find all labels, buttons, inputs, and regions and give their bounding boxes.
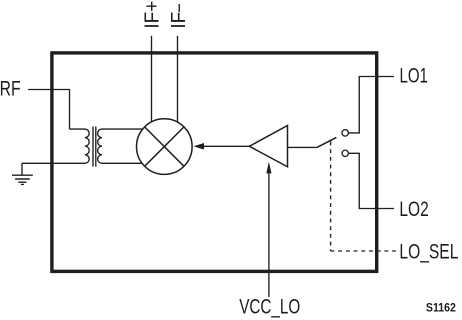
switch contact 1 [342, 130, 348, 136]
switch arm [317, 137, 337, 147]
LO1 lead [348, 77, 394, 133]
LO_SEL dashed control line [330, 142, 332, 252]
svg-text:LO1: LO1 [400, 65, 428, 88]
switch contact 2 [342, 150, 348, 156]
VCC_LO lead [268, 173, 270, 297]
IF+ pin lead [151, 36, 153, 122]
IF- minus stroke [178, 4, 180, 12]
IF- pin lead [177, 36, 179, 123]
transformer T1 primary winding [22, 129, 89, 163]
LO drive wire amp to mixer [204, 145, 250, 147]
svg-text:LO2: LO2 [399, 198, 428, 221]
amp input wire [288, 146, 317, 148]
RF lead [28, 90, 69, 130]
ground symbol [12, 175, 33, 184]
mixer X [145, 127, 184, 166]
transformer T1 secondary winding [98, 129, 143, 163]
svg-text:LO_SEL: LO_SEL [399, 240, 458, 263]
svg-text:IF: IF [167, 12, 190, 29]
amp U1 [249, 126, 287, 167]
arrowhead into mixer [194, 143, 204, 150]
svg-text:RF: RF [0, 78, 21, 101]
svg-text:IF+: IF+ [140, 1, 163, 29]
arrowhead VCC_LO up [266, 162, 271, 174]
ground lead [21, 163, 23, 175]
svg-text:VCC_LO: VCC_LO [239, 296, 300, 319]
mixer circle [137, 119, 193, 175]
LO2 lead [348, 153, 394, 208]
svg-text:S1162: S1162 [426, 303, 456, 315]
block outline [52, 53, 377, 272]
transformer core [93, 127, 96, 167]
